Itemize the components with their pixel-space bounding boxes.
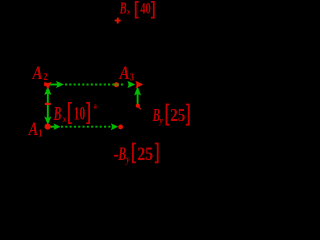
svg-text:A: A xyxy=(28,118,38,140)
node tick on left vertical line xyxy=(45,103,51,105)
wire left vertical down arrowhead xyxy=(44,116,51,124)
node A2 marker (red down arrowhead) xyxy=(44,82,52,90)
wire top horizontal dotted line xyxy=(65,84,124,86)
svg-text:x: x xyxy=(126,6,130,16)
node cross marker under top label xyxy=(115,20,121,22)
wire left vertical up arrowhead xyxy=(44,86,51,95)
wire right vertical arrow line xyxy=(137,88,139,105)
svg-text:y: y xyxy=(159,115,163,125)
wire top horizontal solid start segment xyxy=(47,84,58,86)
node at bottom of right vertical arrow (red dot with tail) xyxy=(136,104,140,108)
wire bottom horizontal dotted line xyxy=(61,126,112,128)
svg-text:25: 25 xyxy=(170,105,185,125)
svg-text:25: 25 xyxy=(137,143,153,165)
node on top dotted line (red/olive dot) xyxy=(114,82,119,87)
svg-text:B: B xyxy=(53,104,62,125)
wire left vertical double arrow line xyxy=(47,88,49,123)
svg-text:A: A xyxy=(119,62,130,83)
svg-text:B: B xyxy=(119,0,127,17)
label -By[25] bottom xyxy=(114,155,118,157)
node A1 marker (red dot) xyxy=(45,124,51,130)
svg-text:3: 3 xyxy=(130,72,134,84)
svg-text:2: 2 xyxy=(43,71,47,83)
svg-text:y: y xyxy=(125,153,129,164)
wire bottom horizontal end arrowhead xyxy=(111,123,119,130)
wire bottom horizontal solid start segment xyxy=(50,126,55,128)
wire right vertical up arrowhead xyxy=(134,87,141,96)
svg-text:B: B xyxy=(118,144,127,164)
node A3 marker (red right arrowhead) xyxy=(135,81,143,89)
svg-text:x: x xyxy=(62,114,66,124)
svg-text:1: 1 xyxy=(38,127,42,139)
wire bottom horizontal direction arrowhead xyxy=(54,123,61,130)
node at end of bottom dotted arrow (red dot) xyxy=(118,125,123,130)
svg-text:A: A xyxy=(32,62,43,83)
svg-text:10: 10 xyxy=(74,104,86,125)
svg-text:40: 40 xyxy=(140,0,151,17)
svg-text:a: a xyxy=(94,102,98,111)
wire top horizontal direction arrowhead xyxy=(56,81,64,88)
wire top horizontal end arrowhead xyxy=(127,81,135,88)
